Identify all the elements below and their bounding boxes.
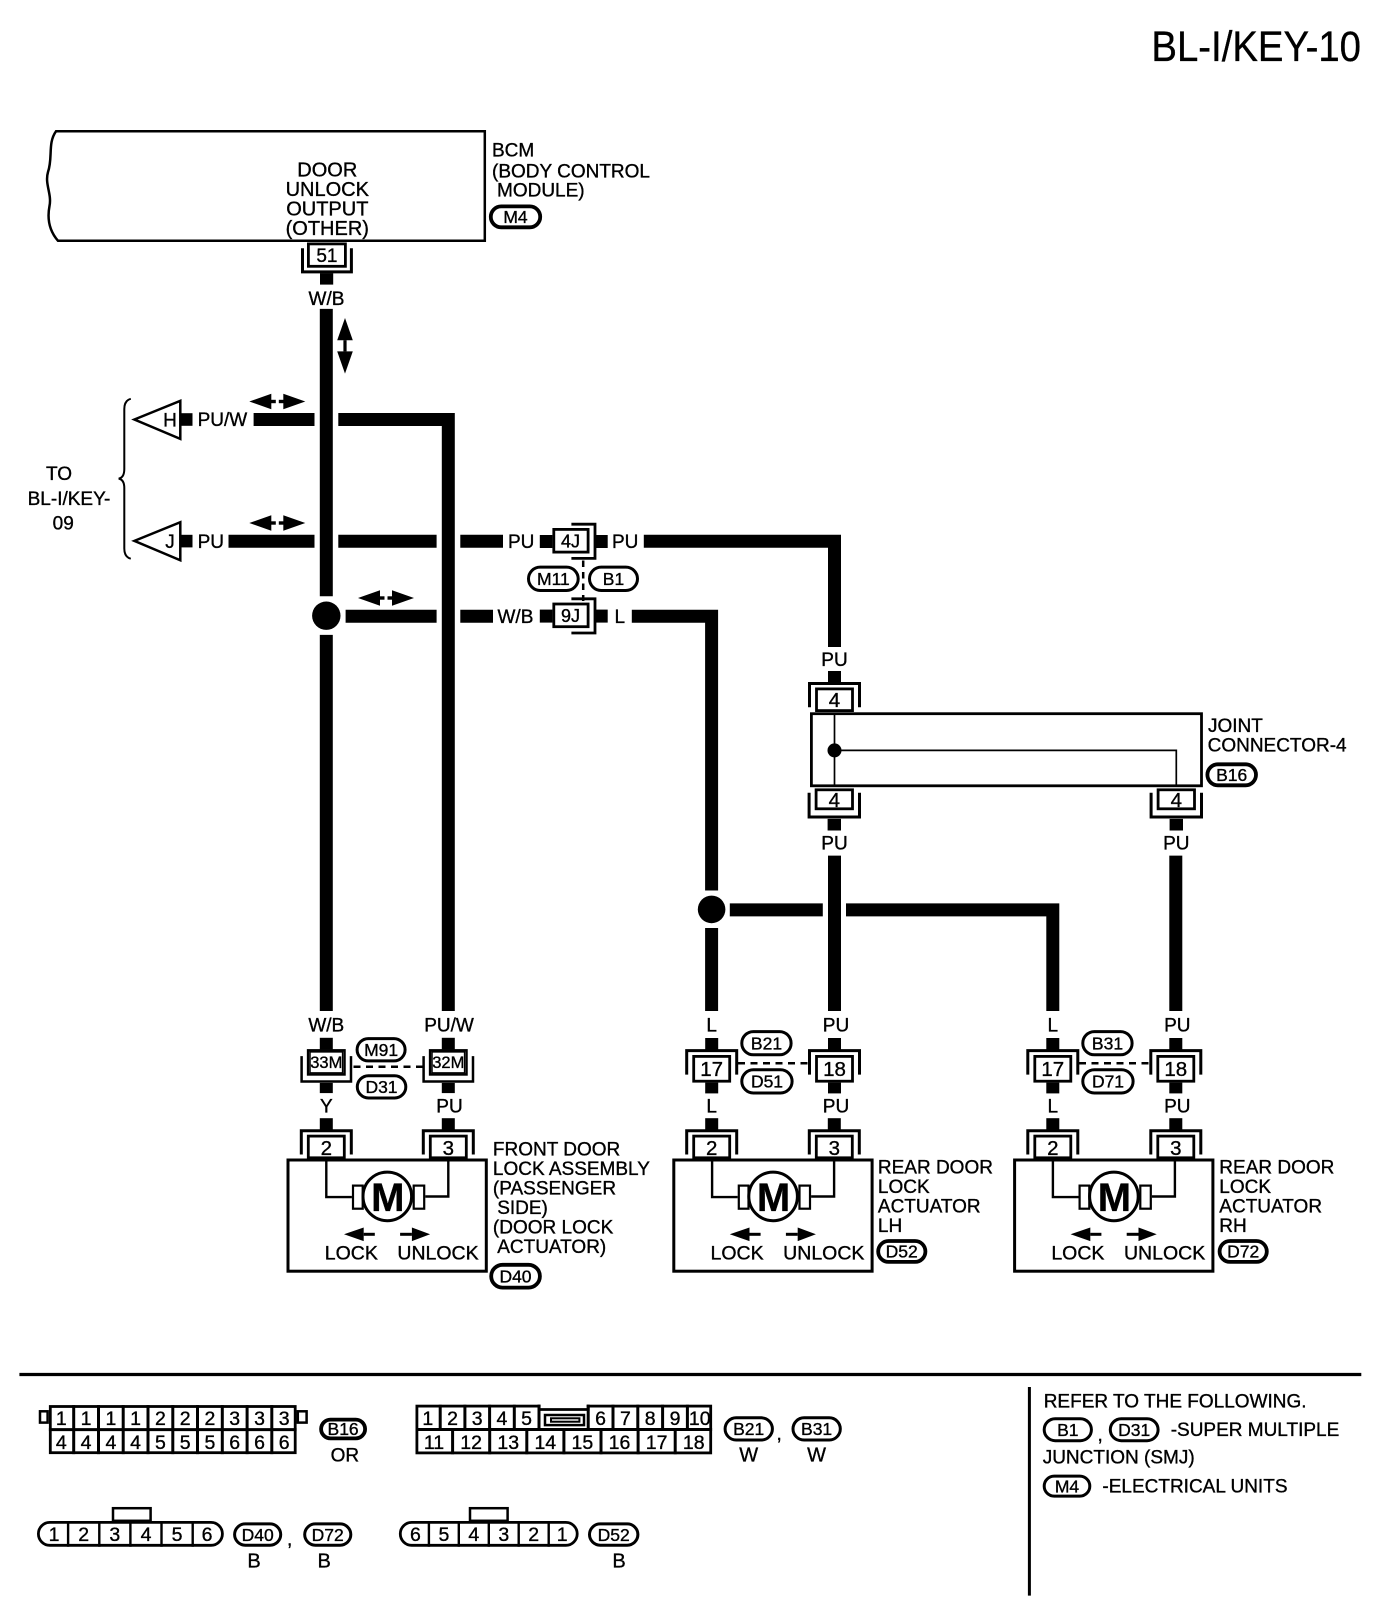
connector RH 17 bbox=[1028, 1038, 1078, 1093]
svg-text:6: 6 bbox=[595, 1408, 606, 1430]
svg-text:6: 6 bbox=[229, 1432, 240, 1454]
svg-text:1: 1 bbox=[422, 1408, 433, 1430]
svg-text:(PASSENGER: (PASSENGER bbox=[493, 1179, 616, 1200]
svg-text:SIDE): SIDE) bbox=[497, 1198, 548, 1219]
connector 9J bbox=[540, 610, 553, 623]
svg-text:32M: 32M bbox=[432, 1054, 464, 1072]
svg-text:L: L bbox=[1048, 1016, 1059, 1037]
rear door lock actuator RH unit box D72 bbox=[1015, 1160, 1213, 1271]
svg-text:4J: 4J bbox=[561, 532, 580, 552]
oval B31 bbox=[1083, 1032, 1132, 1055]
svg-text:1: 1 bbox=[56, 1408, 67, 1430]
oval D72 bbox=[1220, 1241, 1267, 1262]
svg-text:Y: Y bbox=[320, 1096, 333, 1117]
svg-text:M4: M4 bbox=[1055, 1477, 1080, 1497]
oval D71 bbox=[1083, 1070, 1133, 1093]
svg-text:PU: PU bbox=[198, 532, 224, 553]
connector J triangle bbox=[134, 522, 180, 560]
svg-text:ACTUATOR): ACTUATOR) bbox=[497, 1237, 606, 1258]
svg-text:1: 1 bbox=[130, 1408, 141, 1430]
connector pinout grid B21/B31 bbox=[416, 1403, 713, 1454]
svg-text:3: 3 bbox=[443, 1137, 454, 1160]
svg-text:L: L bbox=[706, 1096, 717, 1117]
svg-text:PU/W: PU/W bbox=[424, 1016, 474, 1037]
svg-text:B: B bbox=[247, 1551, 260, 1573]
connector 32M bbox=[424, 1038, 473, 1093]
svg-text:2: 2 bbox=[321, 1137, 332, 1160]
svg-text:4: 4 bbox=[1171, 789, 1182, 812]
svg-text:PU: PU bbox=[1164, 1096, 1190, 1117]
svg-text:D51: D51 bbox=[751, 1072, 783, 1092]
svg-text:L: L bbox=[1048, 1096, 1059, 1117]
svg-text:2: 2 bbox=[706, 1137, 717, 1160]
junction dot on W/B wire bbox=[312, 602, 340, 630]
connector LH 17 bbox=[687, 1038, 737, 1093]
brace for TO BL-I/KEY-09 bbox=[119, 399, 131, 559]
svg-text:M4: M4 bbox=[503, 207, 528, 227]
svg-text:3: 3 bbox=[109, 1524, 120, 1546]
svg-text:PU: PU bbox=[821, 650, 847, 671]
svg-text:(DOOR LOCK: (DOOR LOCK bbox=[493, 1218, 614, 1239]
wire L (9J to corner, down to junction dot 2) bbox=[632, 616, 712, 890]
svg-text:4: 4 bbox=[130, 1432, 141, 1454]
svg-text:33M: 33M bbox=[310, 1054, 342, 1072]
svg-text:W: W bbox=[807, 1445, 826, 1467]
oval B21 bbox=[742, 1032, 791, 1055]
svg-text:7: 7 bbox=[620, 1408, 631, 1430]
svg-text:PU: PU bbox=[823, 1016, 849, 1037]
svg-text:REAR DOOR: REAR DOOR bbox=[878, 1157, 993, 1178]
wire PU/W (H to corner, down to 32M) bbox=[254, 413, 315, 426]
svg-text:LOCK: LOCK bbox=[1219, 1177, 1271, 1198]
svg-text:2: 2 bbox=[1047, 1137, 1058, 1160]
svg-text:5: 5 bbox=[172, 1524, 183, 1546]
svg-text:L: L bbox=[706, 1016, 717, 1037]
svg-text:MODULE): MODULE) bbox=[497, 181, 585, 202]
svg-text:17: 17 bbox=[700, 1058, 723, 1081]
connector RH 18 bbox=[1151, 1038, 1201, 1093]
svg-text:3: 3 bbox=[1170, 1137, 1181, 1160]
connector pin 3 (LH) bbox=[809, 1118, 859, 1158]
connector pin 3 (front) bbox=[423, 1118, 473, 1158]
dashed line between M11 and B1 bbox=[582, 561, 585, 602]
svg-text:PU: PU bbox=[508, 532, 534, 553]
vertical divider bbox=[1028, 1387, 1031, 1596]
oval B21 (legend) bbox=[725, 1418, 772, 1440]
svg-text:3: 3 bbox=[498, 1524, 509, 1546]
svg-text:4: 4 bbox=[496, 1408, 507, 1430]
svg-text:09: 09 bbox=[53, 514, 74, 535]
svg-text:14: 14 bbox=[534, 1432, 556, 1454]
svg-text:W/B: W/B bbox=[308, 1016, 344, 1037]
svg-text:B31: B31 bbox=[801, 1419, 832, 1439]
svg-text:D52: D52 bbox=[598, 1525, 630, 1545]
svg-text:2: 2 bbox=[447, 1408, 458, 1430]
svg-text:B21: B21 bbox=[751, 1033, 782, 1053]
svg-text:2: 2 bbox=[78, 1524, 89, 1546]
svg-text:11: 11 bbox=[424, 1432, 444, 1454]
front door lock actuator unit box D40 bbox=[288, 1160, 486, 1271]
svg-text:-ELECTRICAL UNITS: -ELECTRICAL UNITS bbox=[1102, 1477, 1287, 1498]
svg-text:D31: D31 bbox=[1118, 1420, 1150, 1440]
connector pin 2 (LH) bbox=[687, 1118, 737, 1158]
svg-text:W/B: W/B bbox=[309, 289, 345, 310]
svg-text:5: 5 bbox=[204, 1432, 215, 1454]
oval B31 (legend) bbox=[793, 1418, 840, 1440]
svg-text:B: B bbox=[612, 1551, 625, 1573]
svg-text:3: 3 bbox=[829, 1137, 840, 1160]
joint connector pin 4 (top) bbox=[810, 671, 860, 711]
svg-text:B1: B1 bbox=[1057, 1420, 1078, 1440]
svg-text:13: 13 bbox=[497, 1432, 519, 1454]
bidirectional arrow (vertical) bbox=[337, 318, 353, 374]
svg-text:-SUPER MULTIPLE: -SUPER MULTIPLE bbox=[1171, 1420, 1340, 1441]
arrow (bidirectional) above PU/W wire bbox=[249, 394, 305, 409]
dashed line RH 17 to 18 bbox=[1079, 1062, 1150, 1065]
svg-text:REAR DOOR: REAR DOOR bbox=[1219, 1157, 1334, 1178]
rear door lock actuator LH unit box D52 bbox=[674, 1160, 872, 1271]
svg-text:B31: B31 bbox=[1092, 1033, 1123, 1053]
connector 51 (BCM pin) bbox=[308, 244, 345, 266]
arrow above dot-9J wire bbox=[358, 590, 414, 605]
svg-text:4: 4 bbox=[829, 789, 840, 812]
connector pin 2 (front) bbox=[301, 1118, 351, 1158]
svg-text:2: 2 bbox=[180, 1408, 191, 1430]
svg-text:D40: D40 bbox=[499, 1267, 531, 1287]
svg-text:18: 18 bbox=[1164, 1058, 1187, 1081]
svg-text:D31: D31 bbox=[365, 1077, 397, 1097]
svg-text:ACTUATOR: ACTUATOR bbox=[878, 1197, 981, 1218]
oval M91 bbox=[357, 1039, 405, 1061]
svg-text:RH: RH bbox=[1219, 1216, 1246, 1237]
dashed line LH 17 to 18 bbox=[738, 1062, 809, 1065]
svg-text:4: 4 bbox=[829, 689, 840, 712]
svg-text:B16: B16 bbox=[328, 1419, 359, 1439]
svg-text:PU: PU bbox=[1163, 834, 1189, 855]
svg-text:12: 12 bbox=[460, 1432, 482, 1454]
svg-text:18: 18 bbox=[683, 1432, 705, 1454]
svg-text:17: 17 bbox=[646, 1432, 668, 1454]
dashed line 33M to 32M bbox=[354, 1066, 424, 1069]
svg-text:D40: D40 bbox=[242, 1525, 274, 1545]
svg-text:1: 1 bbox=[105, 1408, 116, 1430]
svg-text:17: 17 bbox=[1041, 1058, 1064, 1081]
svg-text:LOCK: LOCK bbox=[878, 1177, 930, 1198]
svg-text:1: 1 bbox=[81, 1408, 92, 1430]
svg-text:PU/W: PU/W bbox=[198, 410, 248, 431]
svg-text:BCM: BCM bbox=[492, 141, 534, 162]
connector 4J bbox=[540, 535, 553, 548]
svg-text:W: W bbox=[739, 1445, 758, 1467]
wire PU (bottom-right 4 down to RH 18) bbox=[1169, 856, 1182, 1011]
horizontal rule bbox=[19, 1373, 1361, 1376]
connector pinout D52 (6 pin) bbox=[400, 1508, 577, 1547]
svg-text:3: 3 bbox=[254, 1408, 265, 1430]
svg-text:PU: PU bbox=[1164, 1016, 1190, 1037]
svg-text:LH: LH bbox=[878, 1216, 902, 1237]
connector pinout grid B16 bbox=[40, 1405, 307, 1454]
svg-text:BL-I/KEY-10: BL-I/KEY-10 bbox=[1151, 23, 1361, 71]
oval D52 (legend) bbox=[590, 1524, 638, 1545]
oval D52 bbox=[878, 1241, 925, 1262]
oval B1 bbox=[590, 567, 638, 590]
svg-text:CONNECTOR-4: CONNECTOR-4 bbox=[1208, 736, 1347, 757]
wire PU (J to 4J) bbox=[229, 535, 315, 548]
connector pinout D40/D72 (6 pin) bbox=[38, 1508, 222, 1547]
svg-text:PU: PU bbox=[436, 1096, 462, 1117]
svg-text:B16: B16 bbox=[1216, 765, 1247, 785]
svg-text:(OTHER): (OTHER) bbox=[286, 218, 369, 240]
oval B16 (legend) bbox=[321, 1420, 365, 1439]
svg-text:,: , bbox=[777, 1424, 782, 1445]
oval M11 bbox=[529, 567, 579, 590]
svg-text:3: 3 bbox=[472, 1408, 483, 1430]
svg-text:REFER TO THE FOLLOWING.: REFER TO THE FOLLOWING. bbox=[1044, 1392, 1307, 1413]
svg-text:B: B bbox=[318, 1551, 331, 1573]
BCM (Body Control Module) box bbox=[47, 131, 485, 241]
branch wire (dot 2 to RH actuator L line) bbox=[730, 903, 823, 916]
connector pin 3 (RH) bbox=[1151, 1118, 1201, 1158]
svg-text:ACTUATOR: ACTUATOR bbox=[1219, 1197, 1322, 1218]
junction dot 2 bbox=[698, 896, 726, 924]
svg-text:M11: M11 bbox=[537, 569, 570, 589]
svg-text:1: 1 bbox=[557, 1524, 568, 1546]
svg-text:5: 5 bbox=[155, 1432, 166, 1454]
svg-text:16: 16 bbox=[609, 1432, 631, 1454]
svg-text:LOCK ASSEMBLY: LOCK ASSEMBLY bbox=[493, 1159, 650, 1180]
joint connector pin 4 (bottom left) bbox=[809, 790, 859, 831]
svg-text:B1: B1 bbox=[603, 569, 624, 589]
svg-text:18: 18 bbox=[823, 1058, 846, 1081]
svg-text:1: 1 bbox=[49, 1524, 60, 1546]
oval D31 (legend) bbox=[1110, 1419, 1158, 1441]
svg-text:6: 6 bbox=[279, 1432, 290, 1454]
svg-text:15: 15 bbox=[572, 1432, 594, 1454]
svg-text:L: L bbox=[615, 607, 626, 628]
oval D51 bbox=[742, 1070, 792, 1093]
oval D40 (legend) bbox=[235, 1524, 281, 1545]
svg-text:TO: TO bbox=[46, 464, 72, 485]
svg-text:(BODY CONTROL: (BODY CONTROL bbox=[492, 161, 650, 182]
svg-text:B21: B21 bbox=[733, 1419, 764, 1439]
svg-text:6: 6 bbox=[202, 1524, 213, 1546]
svg-text:PU: PU bbox=[821, 834, 847, 855]
svg-text:3: 3 bbox=[229, 1408, 240, 1430]
svg-text:51: 51 bbox=[316, 246, 337, 267]
connector M4 oval bbox=[491, 206, 540, 227]
svg-text:PU: PU bbox=[612, 532, 638, 553]
wire PU (bottom-left 4 down to LH 18) bbox=[828, 856, 841, 1011]
svg-text:4: 4 bbox=[56, 1432, 67, 1454]
svg-text:6: 6 bbox=[410, 1524, 421, 1546]
svg-text:D71: D71 bbox=[1092, 1072, 1124, 1092]
svg-text:8: 8 bbox=[645, 1408, 656, 1430]
svg-text:5: 5 bbox=[180, 1432, 191, 1454]
svg-text:D72: D72 bbox=[312, 1525, 344, 1545]
svg-text:W/B: W/B bbox=[498, 607, 534, 628]
svg-text:JOINT: JOINT bbox=[1208, 716, 1263, 737]
svg-text:,: , bbox=[287, 1530, 292, 1551]
svg-text:4: 4 bbox=[81, 1432, 92, 1454]
oval D31 bbox=[357, 1076, 406, 1098]
connector LH 18 bbox=[810, 1038, 860, 1093]
svg-text:5: 5 bbox=[521, 1408, 532, 1430]
svg-text:4: 4 bbox=[141, 1524, 152, 1546]
svg-text:D52: D52 bbox=[886, 1242, 918, 1262]
svg-text:JUNCTION (SMJ): JUNCTION (SMJ) bbox=[1043, 1448, 1195, 1469]
joint connector pin 4 (bottom right) bbox=[1151, 790, 1201, 831]
svg-text:2: 2 bbox=[155, 1408, 166, 1430]
oval M4 (legend) bbox=[1044, 1476, 1090, 1496]
svg-text:3: 3 bbox=[279, 1408, 290, 1430]
svg-text:D72: D72 bbox=[1227, 1242, 1259, 1262]
svg-text:,: , bbox=[1098, 1425, 1103, 1446]
svg-text:BL-I/KEY-: BL-I/KEY- bbox=[28, 489, 111, 510]
oval B16 (joint connector) bbox=[1207, 764, 1256, 785]
svg-text:J: J bbox=[165, 532, 175, 553]
wire W/B main vertical bbox=[320, 309, 333, 596]
svg-text:9J: 9J bbox=[561, 606, 580, 626]
svg-text:OR: OR bbox=[331, 1445, 360, 1466]
connector pin 2 (RH) bbox=[1028, 1118, 1078, 1158]
oval D40 bbox=[491, 1265, 540, 1288]
svg-text:2: 2 bbox=[204, 1408, 215, 1430]
wire PU (4J to corner, down to joint connector pin 4) bbox=[644, 541, 835, 647]
svg-text:M91: M91 bbox=[364, 1040, 398, 1060]
wire from junction dot to 9J bbox=[346, 610, 437, 623]
svg-text:2: 2 bbox=[528, 1524, 539, 1546]
svg-text:5: 5 bbox=[438, 1524, 449, 1546]
JOINT CONNECTOR-4 box B16 bbox=[811, 714, 1201, 786]
connector H triangle bbox=[134, 401, 180, 439]
svg-text:PU: PU bbox=[823, 1096, 849, 1117]
svg-text:6: 6 bbox=[254, 1432, 265, 1454]
svg-text:H: H bbox=[163, 411, 177, 432]
arrow above J wire bbox=[249, 515, 305, 530]
svg-text:10: 10 bbox=[689, 1408, 711, 1430]
oval D72 (legend) bbox=[305, 1524, 351, 1545]
oval B1 (legend) bbox=[1044, 1419, 1091, 1441]
svg-text:4: 4 bbox=[105, 1432, 116, 1454]
svg-text:9: 9 bbox=[670, 1408, 681, 1430]
connector 33M bbox=[302, 1038, 351, 1093]
svg-text:4: 4 bbox=[468, 1524, 479, 1546]
svg-text:FRONT DOOR: FRONT DOOR bbox=[493, 1140, 620, 1161]
